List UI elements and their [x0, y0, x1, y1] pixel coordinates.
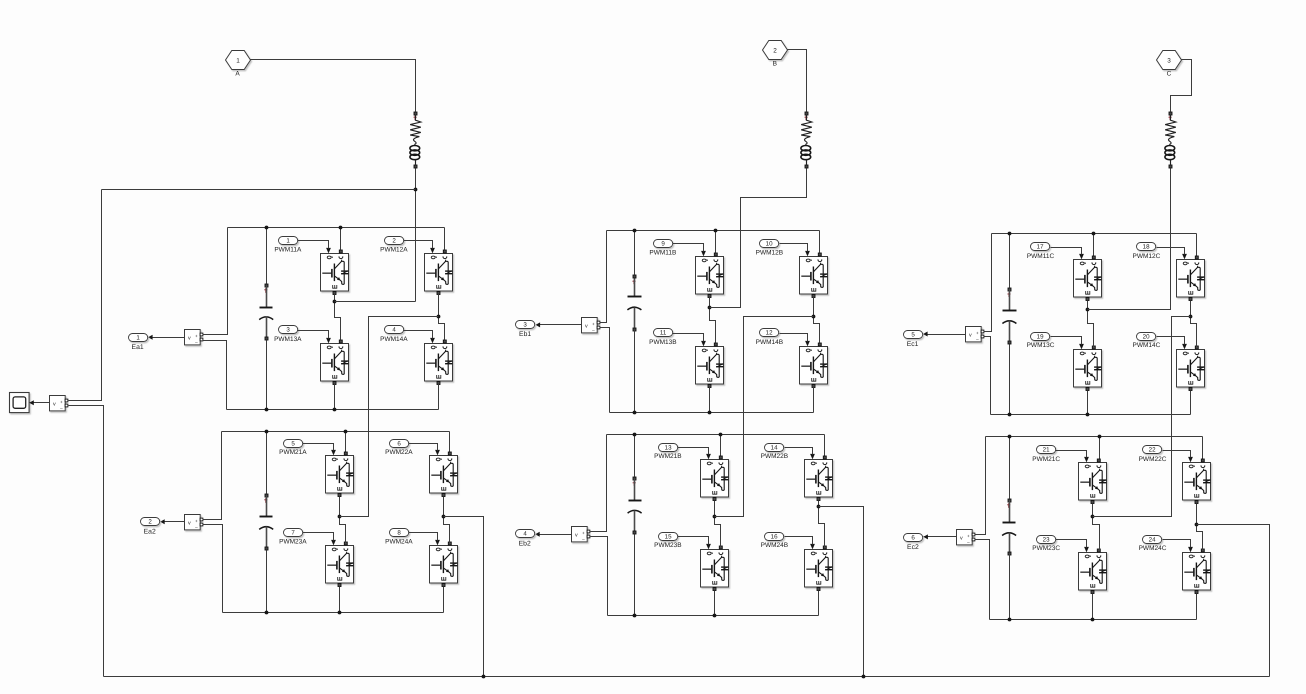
wire cell C1 top rail to PWM12C collector [1196, 234, 1198, 257]
label PWM21C [1032, 456, 1060, 463]
junction cell C2 battery/bottom rail [1008, 618, 1012, 622]
IGBT PWM13B [696, 339, 724, 388]
IGBT PWM12B [800, 249, 828, 298]
IGBT PWM13A [321, 336, 349, 385]
svg-text:PWM11C: PWM11C [1027, 253, 1055, 260]
svg-text:3: 3 [523, 322, 527, 329]
wire scope vmeter output [34, 402, 50, 404]
arrowhead output Eb2 [535, 532, 540, 537]
junction cell A2 bottom rail [338, 611, 342, 615]
port hexagon 3 phase C [1157, 51, 1182, 70]
svg-text:+: + [60, 400, 63, 405]
svg-text:PWM24C: PWM24C [1139, 545, 1167, 552]
svg-text:PWM22A: PWM22A [385, 449, 413, 456]
svg-text:PWM21B: PWM21B [654, 453, 681, 460]
label PWM24A [385, 538, 413, 545]
IGBT PWM23A [326, 538, 354, 587]
svg-text:14: 14 [771, 445, 778, 452]
wire cell B1 bottom DC rail [610, 412, 814, 414]
label C [1167, 70, 1172, 77]
svg-text:1: 1 [236, 57, 240, 64]
IGBT PWM12C [1177, 252, 1205, 301]
wire RL C down to cell C1 [1088, 169, 1171, 310]
wire cell B2 top DC rail [607, 434, 825, 436]
junction neutral phase B [862, 675, 866, 679]
wire vmeter+ B2 to top rail [591, 435, 607, 532]
svg-text:11: 11 [660, 330, 667, 337]
svg-text:–: – [967, 540, 970, 545]
IGBT PWM12A [425, 246, 453, 295]
wire cell B1 top rail to PWM12B collector [819, 231, 821, 253]
wire gate PWM23B [678, 537, 709, 544]
label PWM12B [756, 250, 783, 257]
wire PWM13C emitter to bottom rail [1087, 391, 1089, 415]
svg-text:Ec1: Ec1 [907, 341, 919, 348]
IGBT PWM21B [701, 452, 729, 501]
voltage measurement B2 [572, 527, 590, 542]
svg-text:PWM23A: PWM23A [279, 538, 307, 545]
wire gate PWM11C [1051, 248, 1082, 254]
label PWM11C [1027, 253, 1055, 260]
series RL branch phase A [410, 112, 421, 168]
svg-text:PWM14A: PWM14A [380, 336, 408, 343]
svg-text:Eb2: Eb2 [519, 541, 531, 548]
wire cell B2 bottom DC rail [608, 615, 819, 617]
svg-text:PWM24B: PWM24B [761, 542, 788, 549]
wire cell C1 top rail to PWM11C collector [1093, 234, 1095, 257]
wire gate PWM21B [678, 448, 709, 454]
wire cell A1 top rail to PWM11A collector [340, 228, 342, 250]
svg-text:13: 13 [665, 445, 672, 452]
wire vmeter- B1 to bottom rail [600, 328, 610, 413]
wire gate PWM11A [298, 241, 329, 248]
junction cell C1 right node [1189, 315, 1193, 319]
svg-text:+: + [592, 322, 595, 327]
wire vmeter+ C1 to top rail [984, 234, 992, 332]
junction cell B1 top rail tap [714, 229, 718, 233]
wire gate PWM22A [409, 444, 438, 451]
wire gate PWM23C [1056, 540, 1087, 547]
IGBT PWM13C [1074, 342, 1102, 391]
IGBT PWM22A [430, 448, 458, 497]
voltage measurement B1 [582, 318, 600, 333]
wire cell A1 top DC rail [228, 227, 445, 229]
wire hexagon A to RL branch [251, 60, 416, 112]
wire PWM11A emitter to PWM13A collector [335, 294, 341, 340]
svg-text:v: v [585, 324, 588, 330]
junction cell B2 battery/top rail [633, 433, 637, 437]
svg-text:3: 3 [1167, 57, 1171, 64]
output port 5 Ec1 [904, 331, 923, 339]
wire cascade B cell1 to cell2 [715, 317, 814, 517]
svg-text:Ea1: Ea1 [132, 344, 144, 351]
wire PWM22C emitter to PWM24C collector [1197, 504, 1203, 550]
label Ec1 [907, 341, 919, 348]
wire cell B2 top rail to PWM21B collector [720, 435, 722, 457]
svg-text:6: 6 [911, 535, 915, 542]
svg-text:v: v [53, 402, 56, 408]
wire cell C1 top DC rail [992, 233, 1197, 235]
output port 2 Ea2 [141, 518, 160, 526]
input port 20 [1137, 333, 1156, 341]
wire PWM22B emitter to PWM24B collector [819, 501, 825, 547]
wire PWM24A emitter to bottom rail [443, 587, 445, 613]
output port 1 Ea1 [129, 334, 148, 342]
junction cell A2 battery/bottom rail [265, 611, 269, 615]
junction cell B1 right node [812, 315, 816, 319]
svg-text:–: – [592, 328, 595, 333]
input port 7 [284, 529, 303, 537]
svg-text:8: 8 [397, 530, 401, 537]
junction cell B2 bottom rail [713, 614, 717, 618]
svg-text:2: 2 [148, 519, 152, 526]
label PWM22A [385, 449, 413, 456]
svg-text:A: A [235, 70, 240, 77]
wire cell A1 bottom DC rail [227, 409, 439, 411]
svg-text:C: C [1167, 70, 1172, 77]
label PWM21B [654, 453, 681, 460]
output port 4 Eb2 [516, 530, 535, 538]
junction cell C1 bottom rail [1086, 413, 1090, 417]
svg-text:PWM14B: PWM14B [756, 339, 783, 346]
wire vmeter+ B1 to top rail [600, 231, 607, 323]
input port 17 [1031, 243, 1050, 251]
junction cell A1 battery/top rail [265, 226, 269, 230]
svg-text:5: 5 [291, 441, 295, 448]
input port 1 [279, 237, 298, 245]
label PWM14B [756, 339, 783, 346]
wire vmeter- C2 to bottom rail [975, 540, 990, 620]
svg-text:–: – [195, 340, 198, 345]
wire scope vmeter+ to phase A node [69, 190, 102, 401]
port hexagon 2 phase B [763, 41, 788, 60]
svg-text:23: 23 [1043, 537, 1050, 544]
arrowhead output Ea1 [148, 335, 153, 340]
label PWM14A [380, 336, 408, 343]
arrowhead output Ec2 [923, 534, 928, 539]
svg-text:PWM23C: PWM23C [1032, 545, 1060, 552]
svg-text:PWM14C: PWM14C [1132, 342, 1160, 349]
svg-text:–: – [582, 537, 585, 542]
wire gate PWM13C [1051, 337, 1082, 344]
junction cell C2 left phase node [1091, 515, 1095, 519]
svg-text:v: v [969, 333, 972, 339]
wire gate PWM14B [780, 334, 808, 341]
input port 5 [284, 440, 303, 448]
IGBT PWM14C [1177, 342, 1205, 391]
DC voltage source cell A2 [259, 432, 273, 613]
wire phase C to neutral [1197, 525, 1270, 677]
junction cell B1 bottom rail [708, 411, 712, 415]
wire vmeter A1 output [149, 337, 185, 339]
DC voltage source cell B1 [627, 231, 641, 413]
wire cascade A cell1 to cell2 [340, 317, 439, 517]
wire gate PWM23A [303, 533, 334, 541]
svg-text:16: 16 [771, 534, 778, 541]
wire vmeter C1 output [924, 334, 966, 336]
wire vmeter- C1 to bottom rail [984, 337, 991, 415]
svg-text:PWM13A: PWM13A [274, 336, 302, 343]
label Eb1 [519, 331, 531, 338]
IGBT PWM11B [696, 249, 724, 298]
wire gate PWM24B [785, 537, 813, 544]
DC voltage source cell A1 [259, 228, 273, 410]
wire vmeter- B2 to bottom rail [591, 537, 608, 616]
svg-text:PWM13C: PWM13C [1027, 342, 1055, 349]
junction cell C1 top rail tap [1092, 232, 1096, 236]
svg-text:3: 3 [286, 327, 290, 334]
label PWM24C [1139, 545, 1167, 552]
IGBT PWM21A [326, 448, 354, 497]
wire vmeter+ A1 to top rail [203, 228, 228, 335]
wire PWM14A emitter to bottom rail [438, 384, 440, 410]
label B [773, 60, 777, 67]
scope block [10, 393, 30, 413]
input port 9 [654, 240, 673, 248]
svg-text:15: 15 [665, 534, 672, 541]
wire gate PWM13B [673, 334, 704, 341]
wire gate PWM13A [298, 331, 329, 338]
label PWM11B [649, 250, 676, 257]
IGBT PWM23B [701, 542, 729, 591]
svg-text:+: + [967, 534, 970, 539]
svg-text:PWM11A: PWM11A [274, 247, 302, 254]
svg-text:10: 10 [766, 241, 773, 248]
wire cell B2 top rail to PWM22B collector [824, 435, 826, 457]
IGBT PWM14A [425, 336, 453, 385]
wire gate PWM24A [409, 533, 438, 541]
svg-text:PWM12C: PWM12C [1132, 253, 1160, 260]
junction cell C2 right node [1195, 523, 1199, 527]
wire PWM12B emitter to PWM14B collector [814, 297, 820, 343]
wire PWM24B emitter to bottom rail [818, 591, 820, 616]
svg-text:18: 18 [1143, 244, 1150, 251]
svg-text:17: 17 [1037, 244, 1044, 251]
svg-text:5: 5 [911, 332, 915, 339]
DC voltage source cell B2 [628, 435, 642, 616]
svg-text:9: 9 [661, 241, 665, 248]
IGBT PWM11A [321, 246, 349, 295]
label PWM22B [761, 453, 788, 460]
wire cell A2 top rail to PWM21A collector [345, 432, 347, 453]
wire PWM23A emitter to bottom rail [339, 587, 341, 613]
wire gate PWM14A [404, 331, 433, 338]
svg-text:PWM12B: PWM12B [756, 250, 783, 257]
wire PWM13A emitter to bottom rail [334, 384, 336, 410]
input port 11 [654, 329, 673, 337]
input port 24 [1143, 536, 1162, 544]
output port 6 Ec2 [904, 534, 923, 542]
wire gate PWM22B [785, 448, 813, 454]
voltage measurement C2 [957, 530, 975, 545]
junction cell A2 battery/top rail [265, 430, 269, 434]
label PWM23A [279, 538, 307, 545]
svg-text:+: + [195, 334, 198, 339]
wire PWM21C emitter to PWM23C collector [1093, 504, 1100, 550]
IGBT PWM14B [800, 339, 828, 388]
wire phase B to neutral [819, 507, 864, 677]
IGBT PWM22B [805, 452, 833, 501]
DC voltage source cell C2 [1002, 437, 1016, 620]
junction cell B1 battery/top rail [633, 229, 637, 233]
label Ea1 [132, 344, 144, 351]
wire vmeter+ C2 to top rail [975, 437, 986, 535]
wire vmeter+ A2 to top rail [203, 432, 222, 520]
svg-text:21: 21 [1043, 447, 1050, 454]
wire cell C2 top DC rail [986, 436, 1203, 438]
svg-text:+: + [195, 519, 198, 524]
IGBT PWM22C [1183, 455, 1211, 504]
series RL branch phase B [801, 112, 812, 168]
input port 23 [1037, 536, 1056, 544]
arrowhead output Eb1 [536, 322, 541, 327]
wire cell A2 bottom DC rail [223, 612, 444, 614]
label PWM13A [274, 336, 302, 343]
svg-text:v: v [575, 533, 578, 539]
input port 6 [390, 440, 409, 448]
voltage measurement scope [50, 396, 68, 411]
svg-text:–: – [195, 525, 198, 530]
junction cell B2 top rail tap [719, 433, 723, 437]
svg-text:v: v [188, 521, 191, 527]
svg-text:PWM24A: PWM24A [385, 538, 413, 545]
wire cell A1 top rail to PWM12A collector [444, 228, 446, 250]
wire cell B1 top rail to PWM11B collector [715, 231, 717, 253]
svg-text:2: 2 [392, 238, 396, 245]
label Ec2 [907, 544, 919, 551]
wire cell A2 top rail to PWM22A collector [449, 432, 451, 453]
label PWM13C [1027, 342, 1055, 349]
junction cell B2 battery/bottom rail [633, 614, 637, 618]
voltage measurement A2 [185, 515, 203, 530]
label PWM12C [1132, 253, 1160, 260]
input port 19 [1031, 333, 1050, 341]
wire RL A down to node [415, 169, 417, 302]
wire vmeter- A2 to bottom rail [203, 525, 223, 613]
wire RL B down to cell B1 [710, 169, 807, 308]
svg-text:7: 7 [291, 530, 295, 537]
input port 10 [760, 240, 779, 248]
wire gate PWM21C [1056, 451, 1087, 457]
port hexagon 1 phase A [226, 51, 251, 70]
label PWM11A [274, 247, 302, 254]
junction cell C1 battery/bottom rail [1008, 413, 1012, 417]
svg-text:2: 2 [773, 47, 777, 54]
label Eb2 [519, 541, 531, 548]
svg-text:B: B [773, 60, 777, 67]
input port 16 [765, 533, 784, 541]
svg-text:1: 1 [136, 335, 140, 342]
junction cell C2 bottom rail [1091, 618, 1095, 622]
IGBT PWM24C [1183, 545, 1211, 594]
junction cell C2 battery/top rail [1008, 435, 1012, 439]
series RL branch phase C [1165, 112, 1176, 168]
svg-text:+: + [582, 531, 585, 536]
wire PWM11C emitter to PWM13C collector [1088, 301, 1094, 347]
arrowhead scope input [29, 400, 34, 405]
IGBT PWM24A [430, 538, 458, 587]
junction cell C2 top rail tap [1098, 435, 1102, 439]
wire PWM14B emitter to bottom rail [813, 387, 815, 413]
svg-text:PWM23B: PWM23B [654, 542, 681, 549]
wire PWM23B emitter to bottom rail [714, 591, 716, 616]
label PWM13B [649, 339, 676, 346]
svg-text:PWM12A: PWM12A [380, 247, 408, 254]
wire phase A node to scope vmeter+ [102, 189, 416, 191]
wire PWM24C emitter to bottom rail [1196, 594, 1198, 620]
svg-text:22: 22 [1149, 447, 1156, 454]
wire PWM12C emitter to PWM14C collector [1191, 301, 1197, 347]
junction cell B1 battery/bottom rail [633, 411, 637, 415]
wire vmeter- A1 to bottom rail [203, 341, 227, 410]
wire PWM13B emitter to bottom rail [709, 387, 711, 413]
input port 3 [279, 326, 298, 334]
input port 22 [1143, 446, 1162, 454]
wire PWM11B emitter to PWM13B collector [710, 297, 716, 343]
junction cell A2 top rail tap [344, 430, 348, 434]
svg-text:4: 4 [392, 327, 396, 334]
wire cell C2 top rail to PWM22C collector [1202, 437, 1204, 460]
input port 21 [1037, 446, 1056, 454]
wire gate PWM21A [303, 444, 334, 451]
svg-text:20: 20 [1143, 334, 1150, 341]
junction cell A2 left phase node [338, 515, 342, 519]
DC voltage source cell C1 [1002, 234, 1016, 415]
junction cell A1 right node [437, 315, 441, 319]
wire cell B1 top DC rail [607, 230, 820, 232]
junction cell A2 right node [442, 515, 446, 519]
wire cell C1 bottom DC rail [991, 414, 1191, 416]
wire cascade C cell1 to cell2 [1093, 317, 1191, 517]
junction cell A1 battery/bottom rail [265, 408, 269, 412]
junction cell B1 left phase node [708, 306, 712, 310]
junction cell B2 right node [817, 505, 821, 509]
input port 18 [1137, 243, 1156, 251]
wire neutral bus [104, 676, 1270, 678]
wire scope vmeter- to neutral [69, 406, 104, 677]
label Ea2 [144, 529, 156, 536]
svg-text:–: – [976, 337, 979, 342]
svg-text:PWM11B: PWM11B [649, 250, 676, 257]
svg-text:+: + [976, 331, 979, 336]
wire gate PWM14C [1157, 337, 1185, 344]
input port 13 [659, 444, 678, 452]
wire gate PWM22C [1163, 451, 1191, 457]
svg-text:–: – [60, 406, 63, 411]
wire vmeter B2 output [536, 534, 572, 536]
junction cell A1 left phase node [333, 300, 337, 304]
junction cell C1 battery/top rail [1008, 232, 1012, 236]
svg-text:4: 4 [523, 531, 527, 538]
svg-text:6: 6 [397, 441, 401, 448]
svg-text:Ea2: Ea2 [144, 529, 156, 536]
IGBT PWM21C [1079, 455, 1107, 504]
IGBT PWM24B [805, 542, 833, 591]
junction cell A1 top rail tap [339, 226, 343, 230]
svg-text:19: 19 [1037, 334, 1044, 341]
svg-text:1: 1 [286, 238, 290, 245]
wire PWM12A emitter to PWM14A collector [439, 294, 445, 340]
wire PWM22A emitter to PWM24A collector [444, 497, 450, 543]
voltage measurement A1 [185, 330, 203, 345]
wire cell C2 top rail to PWM21C collector [1099, 437, 1101, 460]
IGBT PWM11C [1074, 252, 1102, 301]
svg-text:24: 24 [1149, 537, 1156, 544]
output port 3 Eb1 [516, 321, 535, 329]
input port 15 [659, 533, 678, 541]
voltage measurement C1 [966, 327, 984, 342]
svg-text:Eb1: Eb1 [519, 331, 531, 338]
